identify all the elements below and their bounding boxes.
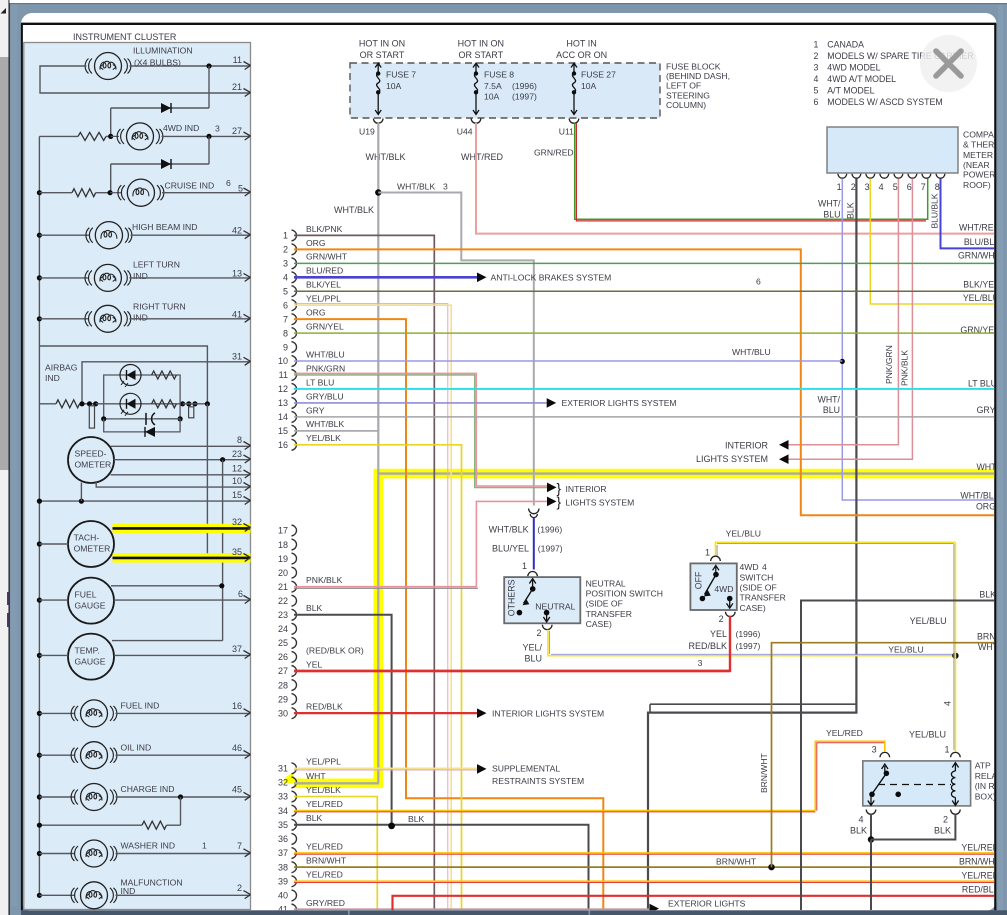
svg-text:YEL/BLU: YEL/BLU (910, 616, 947, 626)
svg-text:BLK: BLK (306, 813, 323, 823)
svg-text:IND: IND (133, 271, 148, 281)
svg-text:BLU: BLU (823, 210, 840, 220)
svg-text:23: 23 (278, 610, 288, 620)
wire row16 YEL/BLK (294, 445, 462, 910)
resistor 4WD row (39, 135, 78, 137)
instrument cluster panel (24, 43, 251, 910)
svg-text:}: } (557, 481, 562, 496)
slate shading (998, 5, 1003, 911)
svg-text:4: 4 (283, 272, 288, 282)
svg-text:GRY/RED: GRY/RED (306, 898, 345, 908)
viewer black border left (21, 24, 23, 911)
svg-text:YEL/BLU: YEL/BLU (909, 729, 946, 739)
svg-text:16: 16 (278, 440, 288, 450)
svg-text:7: 7 (283, 314, 288, 324)
resistor cruise row (37, 190, 42, 195)
svg-text:4: 4 (858, 815, 863, 825)
wire row34 YEL/RED (294, 810, 815, 812)
svg-text:OR START: OR START (360, 50, 405, 60)
airbag branch top LED1 (104, 375, 180, 404)
svg-text:(BEHIND DASH,: (BEHIND DASH, (666, 71, 730, 81)
wire row33 YEL/BLK (294, 797, 377, 910)
bottom scrollbar track (21, 910, 1007, 915)
svg-text:FUSE BLOCK: FUSE BLOCK (666, 61, 721, 71)
fuse 8 (473, 63, 479, 73)
wire row14 GRY (294, 416, 995, 418)
svg-text:4WD A/T MODEL: 4WD A/T MODEL (827, 74, 896, 84)
svg-text:4WD MODEL: 4WD MODEL (827, 63, 880, 73)
svg-text:OTHERS: OTHERS (506, 579, 516, 616)
svg-text:35: 35 (278, 820, 288, 830)
svg-text:(1997): (1997) (512, 92, 537, 102)
atp relay pin2 arc (951, 810, 961, 815)
svg-text:TRANSFER: TRANSFER (740, 593, 786, 603)
svg-text:U11: U11 (559, 126, 574, 136)
svg-text:SWITCH: SWITCH (740, 572, 774, 582)
svg-text:5: 5 (283, 286, 288, 296)
svg-text:1: 1 (522, 561, 527, 571)
svg-text:WHT/BLK: WHT/BLK (489, 524, 529, 534)
wire speedo pin 23 (114, 459, 250, 461)
svg-text:MODELS W/ ASCD SYSTEM: MODELS W/ ASCD SYSTEM (827, 97, 942, 107)
svg-text:22: 22 (278, 596, 288, 606)
svg-text:ATP: ATP (975, 761, 991, 771)
svg-text:3: 3 (698, 658, 703, 668)
highlighted WHT wire horizontal (378, 472, 995, 474)
svg-text:14: 14 (278, 412, 288, 422)
wire row35 BLK (294, 825, 589, 910)
svg-text:1: 1 (202, 841, 207, 851)
svg-text:23: 23 (232, 449, 242, 459)
svg-text:6: 6 (907, 182, 912, 192)
svg-text:POSITION SWITCH: POSITION SWITCH (586, 589, 663, 599)
svg-text:GAUGE: GAUGE (75, 656, 106, 666)
wire splice blue segment (533, 518, 535, 570)
lamp 4WD IND (108, 134, 113, 139)
speedometer (68, 437, 114, 483)
svg-text:POWER: POWER (963, 170, 995, 180)
svg-text:29: 29 (278, 694, 288, 704)
svg-text:LIGHTS SYSTEM: LIGHTS SYSTEM (696, 454, 768, 464)
svg-text:BLK: BLK (408, 814, 425, 824)
svg-text:HOT IN ON: HOT IN ON (458, 39, 504, 49)
svg-text:NEUTRAL: NEUTRAL (586, 578, 626, 588)
svg-text:3: 3 (215, 124, 220, 134)
svg-text:PNK/BLK: PNK/BLK (900, 350, 910, 386)
svg-text:12: 12 (232, 464, 242, 474)
wire fuel out pin 6 (37, 598, 42, 603)
svg-text:45: 45 (232, 785, 242, 795)
diode D2 (111, 163, 209, 165)
svg-text:YEL: YEL (710, 629, 727, 639)
svg-text:IND: IND (121, 886, 136, 896)
svg-text:41: 41 (232, 309, 242, 319)
svg-text:1: 1 (283, 231, 288, 241)
svg-text:LT BLU: LT BLU (968, 378, 997, 388)
svg-text:GRY: GRY (977, 405, 996, 415)
svg-text:WHT/BLK: WHT/BLK (397, 181, 435, 191)
wire pin2 BLK inner step (650, 703, 856, 705)
svg-text:STEERING: STEERING (666, 90, 710, 100)
svg-text:NEUTRAL: NEUTRAL (535, 601, 575, 611)
diode D1 (111, 107, 209, 109)
svg-text:GRY: GRY (306, 405, 325, 415)
resistor airbag main (39, 403, 56, 405)
airbag capacitor branch (104, 404, 180, 419)
wire row41 GRY/RED (294, 908, 650, 910)
svg-text:6: 6 (756, 276, 761, 286)
svg-text:GRN/YEL: GRN/YEL (306, 322, 344, 332)
svg-text:YEL/RED: YEL/RED (826, 728, 863, 738)
svg-text:YEL/BLU: YEL/BLU (888, 644, 923, 654)
atp relay dashed bar (878, 784, 951, 786)
svg-text:BLU: BLU (823, 405, 840, 415)
svg-text:CHARGE IND: CHARGE IND (121, 784, 175, 794)
svg-text:3: 3 (283, 259, 288, 269)
svg-text:WHT: WHT (976, 462, 997, 472)
svg-text:INSTRUMENT CLUSTER: INSTRUMENT CLUSTER (73, 32, 177, 42)
svg-text:BLK: BLK (934, 826, 951, 836)
lamp WASHER IND (37, 851, 42, 856)
svg-text:4: 4 (762, 562, 767, 572)
svg-text:}: } (557, 495, 562, 510)
svg-text:28: 28 (278, 680, 288, 690)
svg-text:ORG: ORG (306, 238, 326, 248)
svg-text:PNK/BLK: PNK/BLK (306, 575, 343, 585)
svg-text:ACC OR ON: ACC OR ON (556, 50, 607, 60)
svg-text:CRUISE IND: CRUISE IND (165, 180, 215, 190)
svg-text:2: 2 (237, 883, 242, 893)
svg-text:IND: IND (45, 373, 60, 383)
svg-text:FUEL IND: FUEL IND (121, 701, 160, 711)
atp relay BLK down wire (870, 840, 872, 911)
lamp MALFUNCTION IND (37, 893, 42, 898)
svg-text:BLU: BLU (524, 654, 542, 664)
cluster ground bus wire (38, 136, 40, 895)
tachometer (68, 521, 114, 567)
svg-text:4: 4 (814, 74, 819, 84)
wire high beam out pin 42 (131, 234, 251, 236)
airbag connector plate left (89, 406, 94, 428)
wire speedo pin 12 (111, 474, 251, 476)
wire speedo pin 8 (111, 445, 251, 447)
wire row4 BLU/RED (294, 276, 477, 279)
wire row10 WHT/BLU (294, 360, 842, 362)
wire row27 RED (294, 670, 730, 672)
wire temp top pin (112, 640, 223, 642)
wire row7 ORG (294, 319, 603, 910)
svg-text:INTERIOR LIGHTS SYSTEM: INTERIOR LIGHTS SYSTEM (492, 709, 604, 719)
svg-text:BLU/BLK: BLU/BLK (930, 193, 940, 228)
svg-text:BOX): BOX) (975, 792, 996, 802)
svg-text:10: 10 (278, 356, 288, 366)
wire RED/BLK bottom right (393, 896, 996, 911)
window top white sliver (10, 0, 1007, 3)
scrollbar arrow glyph (1, 8, 7, 14)
svg-text:8: 8 (283, 328, 288, 338)
svg-text:37: 37 (278, 848, 288, 858)
svg-text:WHT/BLU: WHT/BLU (306, 349, 345, 359)
scrollbar purple marks (7, 592, 9, 605)
svg-text:17: 17 (278, 526, 288, 536)
4wd switch pin1 arc (711, 556, 721, 561)
wire row3 GRN/WHT (294, 262, 995, 264)
svg-text:OMETER: OMETER (74, 544, 111, 554)
wire BLK right horizontal (801, 601, 995, 911)
svg-text:33: 33 (278, 792, 288, 802)
svg-text:YEL: YEL (306, 659, 322, 669)
svg-text:BLK: BLK (306, 603, 323, 613)
svg-text:YEL/RED: YEL/RED (306, 841, 343, 851)
vertical from pin23 to gauges (222, 460, 224, 641)
svg-text:27: 27 (232, 126, 242, 136)
wire row30 RED/BLK (294, 712, 477, 714)
svg-text:20: 20 (278, 568, 288, 578)
svg-text:18: 18 (278, 540, 288, 550)
svg-text:YEL/RED: YEL/RED (306, 799, 343, 809)
lamp OIL IND (37, 753, 42, 758)
svg-text:6: 6 (238, 589, 243, 599)
atp relay coil (952, 763, 958, 771)
wire pin3 YEL (870, 179, 995, 305)
svg-text:15: 15 (232, 490, 242, 500)
svg-text:9: 9 (283, 342, 288, 352)
4wd switch pin2 arc (726, 612, 736, 617)
wire 4WD out pin 27 (162, 135, 251, 137)
svg-text:34: 34 (278, 806, 288, 816)
lamp ILLUMINATION (95, 53, 122, 80)
wire row23 BLK (294, 615, 392, 826)
svg-text:FUSE 8: FUSE 8 (484, 70, 514, 80)
wire row38 BRN/WHT (294, 866, 995, 868)
svg-text:BLK: BLK (850, 826, 867, 836)
svg-text:6: 6 (283, 300, 288, 310)
wire row39 YEL/RED (294, 880, 995, 882)
atp relay pin4 arc (866, 810, 876, 815)
svg-text:PNK/GRN: PNK/GRN (884, 345, 894, 384)
svg-text:RIGHT TURN: RIGHT TURN (133, 301, 186, 311)
lamp FUEL IND (37, 711, 42, 716)
fuse 27 (571, 63, 577, 73)
svg-text:YEL/RED: YEL/RED (306, 870, 343, 880)
neutral position switch box (504, 577, 580, 623)
svg-text:16: 16 (232, 701, 242, 711)
wire illumination pin 21 loop (40, 66, 250, 93)
atp relay switch (882, 764, 888, 772)
svg-text:37: 37 (232, 644, 242, 654)
svg-text:INTERIOR: INTERIOR (725, 440, 769, 450)
svg-text:38: 38 (278, 862, 288, 872)
wire row1 BLK/PNK (294, 235, 434, 910)
svg-text:6: 6 (814, 97, 819, 107)
svg-text:BLK/PNK: BLK/PNK (306, 224, 343, 234)
svg-text:4WD: 4WD (714, 584, 733, 594)
browser scrollbar strip left (0, 0, 10, 915)
svg-text:(1996): (1996) (537, 524, 562, 534)
connector brackets and pin numbers (292, 230, 297, 241)
svg-text:4WD IND: 4WD IND (163, 123, 199, 133)
wire row11 PNK/GRN (294, 375, 547, 488)
svg-text:5: 5 (814, 86, 819, 96)
airbag diode branch (104, 419, 180, 432)
airbag LED2 and resistor (120, 393, 141, 414)
svg-text:46: 46 (232, 743, 242, 753)
svg-text:ROOF): ROOF) (963, 180, 991, 190)
svg-text:1: 1 (814, 40, 819, 50)
svg-text:15: 15 (278, 426, 288, 436)
wire row32 WHT highlighted (294, 782, 379, 784)
svg-text:ORG: ORG (976, 502, 996, 512)
svg-text:4WD: 4WD (740, 562, 759, 572)
svg-text:YEL/RED: YEL/RED (961, 871, 999, 881)
svg-text:6: 6 (226, 178, 231, 188)
svg-text:WHT/BLK: WHT/BLK (306, 419, 344, 429)
svg-text:WHT/BLU: WHT/BLU (732, 347, 771, 357)
wire row13 GRY/BLU (294, 402, 547, 404)
close button (920, 35, 977, 92)
scrollbar border line (8, 0, 10, 915)
wire row15 WHT/BLK (294, 430, 378, 432)
svg-text:CASE): CASE) (586, 619, 612, 629)
splice connector 533 (529, 509, 539, 514)
svg-text:2: 2 (943, 815, 948, 825)
svg-text:CANADA: CANADA (827, 40, 864, 50)
svg-text:1: 1 (837, 182, 842, 192)
svg-text:2: 2 (283, 245, 288, 255)
viewer black border right (994, 24, 996, 911)
svg-text:3: 3 (443, 181, 448, 191)
wire speedo pin 15 (39, 500, 250, 502)
svg-text:METER: METER (963, 150, 993, 160)
svg-text:FUSE 27: FUSE 27 (581, 70, 616, 80)
svg-text:BLU/RED: BLU/RED (306, 266, 343, 276)
airbag right vertical to tach (206, 404, 208, 558)
svg-text:10A: 10A (484, 92, 500, 102)
svg-text:OIL IND: OIL IND (121, 742, 152, 752)
svg-text:YEL/PPL: YEL/PPL (306, 757, 341, 767)
svg-text:WHT/BLU: WHT/BLU (960, 490, 1000, 500)
svg-text:3: 3 (865, 182, 870, 192)
wire temp out pin 37 (37, 653, 42, 658)
neutral switch pin2 contact (544, 610, 550, 616)
svg-text:TACH-: TACH- (74, 533, 100, 543)
wire tach bus (37, 541, 42, 546)
svg-text:10A: 10A (581, 81, 597, 91)
svg-text:3: 3 (872, 744, 877, 754)
svg-text:5: 5 (893, 182, 898, 192)
temp gauge (68, 634, 114, 680)
svg-text:WHT/BLK: WHT/BLK (334, 205, 374, 215)
svg-text:YEL/BLU: YEL/BLU (726, 529, 761, 539)
svg-text:11: 11 (233, 55, 242, 65)
svg-text:LEFT TURN: LEFT TURN (133, 260, 180, 270)
svg-text:25: 25 (278, 638, 288, 648)
svg-text:32: 32 (232, 517, 242, 527)
wire row6 YEL/PPL (294, 304, 448, 910)
svg-text:7: 7 (237, 841, 242, 851)
svg-text:IND: IND (133, 312, 148, 322)
wire right turn out pin 41 (129, 318, 250, 320)
svg-text:(1996): (1996) (512, 81, 537, 91)
svg-text:AIRBAG: AIRBAG (45, 362, 78, 372)
viewer black border top (21, 23, 996, 25)
wire row37 YEL/RED (294, 852, 995, 854)
svg-text:2: 2 (536, 628, 541, 638)
svg-text:GRN/RED: GRN/RED (534, 147, 574, 157)
svg-text:32: 32 (278, 778, 288, 788)
svg-text:ILLUMINATION: ILLUMINATION (133, 46, 193, 56)
airbag connector plate right (189, 407, 194, 418)
wire left turn out pin 13 (129, 277, 250, 279)
svg-text:31: 31 (232, 351, 242, 361)
svg-text:2: 2 (851, 182, 856, 192)
svg-text:WHT/RED: WHT/RED (959, 223, 1000, 233)
highlighted wire 35 tach (113, 553, 251, 562)
svg-text:1: 1 (944, 744, 949, 754)
svg-text:YEL/BLU: YEL/BLU (963, 293, 999, 303)
svg-text:WHT: WHT (306, 771, 326, 781)
airbag feed wire top (39, 346, 207, 404)
svg-text:26: 26 (278, 652, 288, 662)
wire fuel top pin (111, 585, 222, 587)
svg-text:39: 39 (278, 876, 288, 886)
svg-text:(1997): (1997) (538, 543, 563, 553)
lamp LEFT TURN IND (37, 275, 42, 280)
svg-text:BLK/YEL: BLK/YEL (963, 279, 999, 289)
svg-text:A/T MODEL: A/T MODEL (827, 86, 874, 96)
svg-text:LT BLU: LT BLU (306, 377, 334, 387)
svg-text:U19: U19 (359, 126, 375, 136)
svg-text:42: 42 (232, 226, 242, 236)
svg-text:TRANSFER: TRANSFER (586, 609, 632, 619)
svg-text:2: 2 (719, 614, 724, 624)
svg-text:SPEED-: SPEED- (75, 449, 107, 459)
svg-text:11: 11 (279, 370, 288, 380)
svg-text:2: 2 (814, 51, 819, 61)
svg-text:8: 8 (935, 182, 940, 192)
svg-text:RED/BLK: RED/BLK (306, 702, 343, 712)
svg-text:RED/BLK: RED/BLK (962, 884, 1000, 894)
svg-text:FUSE 7: FUSE 7 (386, 70, 416, 80)
svg-text:GRN/WHT: GRN/WHT (306, 252, 348, 262)
wire WHT/BLK branch to neutral switch (378, 193, 534, 506)
wire row31 YEL/PPL (294, 767, 477, 769)
highlight yellow band (294, 474, 995, 784)
neutral switch pin2 arc (542, 625, 552, 630)
svg-text:OFF: OFF (693, 571, 703, 589)
svg-text:YEL/RED: YEL/RED (961, 842, 999, 852)
svg-text:PNK/GRN: PNK/GRN (306, 363, 345, 373)
svg-text:(1996): (1996) (736, 629, 761, 639)
svg-text:HIGH BEAM IND: HIGH BEAM IND (132, 222, 197, 232)
wire speedo pin 10 (96, 481, 250, 487)
svg-text:12: 12 (278, 384, 288, 394)
svg-text:ANTI-LOCK BRAKES SYSTEM: ANTI-LOCK BRAKES SYSTEM (491, 272, 612, 282)
svg-text:GAUGE: GAUGE (75, 600, 106, 610)
svg-text:21: 21 (232, 82, 242, 92)
svg-text:OR START: OR START (458, 50, 503, 60)
svg-text:1: 1 (705, 547, 710, 557)
svg-text:BRN/WHT: BRN/WHT (306, 856, 347, 866)
svg-text:WHT/: WHT/ (818, 395, 841, 405)
wire cruise out pin 5 (162, 192, 250, 194)
svg-text:19: 19 (278, 554, 288, 564)
svg-text:GRY/BLU: GRY/BLU (306, 391, 344, 401)
svg-text:HOT IN: HOT IN (566, 39, 596, 49)
svg-text:SUPPLEMENTAL: SUPPLEMENTAL (492, 764, 560, 774)
wire fuel bus (39, 599, 68, 601)
lamp CRUISE IND (108, 190, 113, 195)
